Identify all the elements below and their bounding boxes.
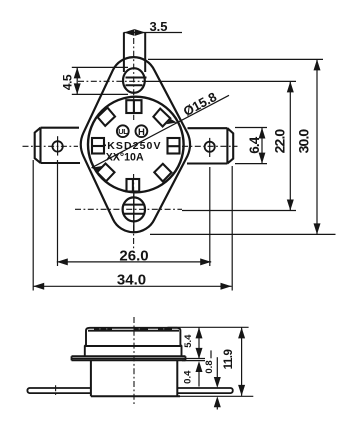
svg-text:4.5: 4.5 xyxy=(60,74,74,90)
hole bottom ear xyxy=(123,197,145,221)
terminal strip 2 xyxy=(134,328,149,331)
crimp diamond upper-right xyxy=(153,109,170,127)
dimension bracket thickness arrows xyxy=(214,357,221,409)
wire right hole vertical xyxy=(209,138,211,157)
wire cup bottom and extension xyxy=(91,395,180,397)
dimension 4.5 xyxy=(72,67,128,94)
slot top hole xyxy=(126,78,147,86)
wire left hole vertical xyxy=(57,136,59,155)
crimp tab bottom xyxy=(127,179,140,192)
svg-text:34.0: 34.0 xyxy=(117,271,146,288)
mount tab left xyxy=(35,128,80,163)
flange plate side view xyxy=(72,356,186,360)
mount tab right xyxy=(187,128,233,163)
svg-text:5.4: 5.4 xyxy=(183,334,194,348)
crimp tab top xyxy=(126,100,141,113)
svg-text:0.4: 0.4 xyxy=(182,370,193,384)
dimension 22.0 xyxy=(145,81,296,210)
flange outline xyxy=(81,57,190,232)
svg-text:0.8: 0.8 xyxy=(204,360,215,373)
logo H xyxy=(136,125,148,137)
crimp diamond lower-right xyxy=(154,164,171,182)
wire bracket left centerline xyxy=(55,385,57,395)
dimension 30.0 xyxy=(148,59,336,234)
hole top ear xyxy=(123,68,145,93)
body can side view xyxy=(85,328,182,356)
wire vertical dash-dot centerline side view xyxy=(133,317,135,404)
svg-text:30.0: 30.0 xyxy=(295,129,311,154)
bracket left side view xyxy=(27,388,90,393)
dimension 0.8 xyxy=(210,350,212,358)
crimp diamond lower-left xyxy=(97,164,115,182)
svg-text:Ø15.8: Ø15.8 xyxy=(181,89,219,119)
svg-text:6.4: 6.4 xyxy=(247,136,262,153)
wire top hole horizontal centerline xyxy=(78,80,146,82)
crimp diamond upper-left xyxy=(98,108,116,126)
dimension 6.4 xyxy=(235,128,267,164)
dimension 34.0 xyxy=(33,160,232,291)
wire bottom hole horizontal centerline xyxy=(75,208,182,210)
wire horizontal dash-dot centerline left xyxy=(23,145,79,147)
cup side view xyxy=(91,360,177,396)
svg-text:KSD250V: KSD250V xyxy=(107,140,161,152)
terminal strip 3 xyxy=(158,328,172,331)
dimension 0.4 xyxy=(182,359,205,387)
svg-text:26.0: 26.0 xyxy=(119,247,148,264)
cap circle body xyxy=(88,97,184,193)
svg-text:11.9: 11.9 xyxy=(223,350,235,370)
svg-text:3.5: 3.5 xyxy=(149,19,167,34)
dimension diameter 15.8 xyxy=(92,95,230,171)
terminal strip 1 xyxy=(94,328,112,331)
wire vertical dash-dot centerline top view xyxy=(133,38,135,120)
svg-text:UL: UL xyxy=(118,127,128,136)
slot bottom hole xyxy=(124,205,144,214)
wire horizontal dash-dot centerline right xyxy=(182,145,238,147)
crimp tab left xyxy=(92,138,104,154)
terminal top xyxy=(124,32,145,72)
dimension 11.9 xyxy=(238,327,245,396)
wire bottom hole vertical xyxy=(133,192,135,233)
hole right tab xyxy=(205,142,215,152)
logo UL xyxy=(117,125,129,137)
svg-text:22.0: 22.0 xyxy=(272,129,288,154)
dimension 3.5 xyxy=(124,29,182,36)
crimp tab right xyxy=(168,138,180,154)
bracket right side view xyxy=(177,388,232,393)
dimension 5.4 xyxy=(168,327,249,359)
hole left tab xyxy=(52,141,62,151)
label KSD250V xyxy=(103,144,106,146)
svg-text:XX°10A: XX°10A xyxy=(106,151,144,163)
dimension 26.0 xyxy=(57,160,211,266)
svg-text:H: H xyxy=(138,127,145,138)
